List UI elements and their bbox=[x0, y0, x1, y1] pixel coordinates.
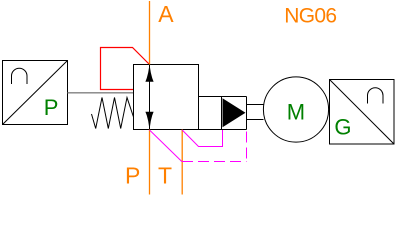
svg-text:T: T bbox=[158, 163, 172, 189]
svg-text:G: G bbox=[334, 115, 351, 140]
svg-text:A: A bbox=[158, 1, 174, 27]
svg-text:P: P bbox=[44, 95, 59, 120]
svg-text:M: M bbox=[287, 100, 305, 125]
svg-text:P: P bbox=[125, 163, 140, 189]
svg-text:NG06: NG06 bbox=[284, 5, 336, 28]
